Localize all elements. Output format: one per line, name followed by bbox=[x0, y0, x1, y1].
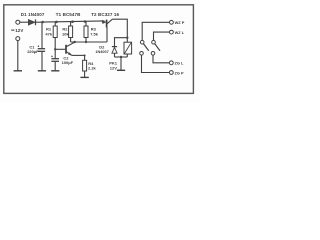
svg-text:WZ P: WZ P bbox=[175, 20, 185, 25]
relay coil PK1 bbox=[124, 42, 132, 57]
border frame bbox=[4, 5, 194, 94]
svg-text:ZG L: ZG L bbox=[175, 61, 184, 66]
svg-text:T2 BC327 16: T2 BC327 16 bbox=[91, 12, 119, 17]
wire terminal to D1 bbox=[20, 21, 29, 23]
contact K1 arm bbox=[143, 44, 148, 51]
ground G2 bbox=[38, 70, 46, 72]
node R2/rail bbox=[71, 20, 74, 23]
svg-text:D1 1N4007: D1 1N4007 bbox=[21, 12, 45, 17]
svg-text:2.2k: 2.2k bbox=[88, 66, 97, 71]
resistor R4 bbox=[83, 55, 87, 77]
label +12V bbox=[11, 29, 14, 31]
contact K2 arm bbox=[155, 44, 160, 51]
diode D2 bbox=[112, 47, 117, 57]
capacitor C2 bbox=[51, 56, 59, 71]
wire T2 base down bbox=[106, 27, 108, 42]
wire lower terminal to ground bbox=[17, 41, 19, 71]
svg-text:WZ L: WZ L bbox=[175, 30, 185, 35]
node relay ground bbox=[120, 56, 122, 58]
wire D2/relay bottom bbox=[115, 56, 128, 58]
svg-text:7.5k: 7.5k bbox=[90, 31, 99, 36]
wire +12V rail bbox=[43, 21, 105, 22]
svg-text:220µF: 220µF bbox=[27, 49, 39, 54]
terminal WZ P bbox=[170, 20, 174, 24]
wire K1 pole to ZG P bbox=[142, 55, 170, 72]
wire T1 base bbox=[55, 48, 65, 50]
resistor R2 bbox=[69, 22, 73, 42]
svg-text:100µF: 100µF bbox=[62, 60, 74, 65]
wire K2 throw to WZ L bbox=[154, 32, 170, 40]
capacitor C1 bbox=[38, 22, 46, 71]
wire to D2 bbox=[115, 38, 128, 47]
resistor R3 bbox=[84, 21, 88, 42]
terminal ZG P bbox=[169, 71, 173, 75]
terminal WZ L bbox=[170, 30, 174, 34]
transistor T2 bbox=[102, 19, 112, 27]
svg-text:T1 BC547B: T1 BC547B bbox=[56, 12, 81, 17]
contact K1 pole bbox=[140, 52, 144, 56]
terminal ZG L bbox=[169, 61, 173, 65]
wire K1 throw to WZ P bbox=[142, 22, 169, 40]
ground G5 bbox=[117, 69, 125, 71]
contact K2 pole bbox=[151, 52, 155, 56]
wire base line T1 collector to T2 base bbox=[71, 41, 107, 43]
terminal +12V upper bbox=[16, 20, 20, 24]
ground G4 bbox=[80, 76, 88, 78]
node C1/rail bbox=[41, 21, 44, 24]
node R1/rail bbox=[55, 21, 58, 24]
wire T2 collector to relay bbox=[112, 19, 127, 42]
svg-text:12V: 12V bbox=[110, 65, 117, 70]
svg-text:10k: 10k bbox=[62, 31, 69, 36]
node T1 base / C2 bbox=[54, 48, 56, 50]
terminal 12V lower bbox=[16, 37, 20, 41]
diode D1 bbox=[28, 19, 35, 25]
ground G1 bbox=[14, 70, 22, 72]
resistor R1 bbox=[53, 22, 57, 59]
wire T1 emitter to R4 bbox=[72, 54, 85, 56]
wire D1 to rail bbox=[36, 21, 43, 23]
contact K2 throw bbox=[152, 40, 156, 44]
svg-text:12V: 12V bbox=[15, 28, 23, 33]
svg-text:1N4007: 1N4007 bbox=[95, 50, 108, 54]
svg-text:D2: D2 bbox=[99, 45, 105, 50]
contact K1 throw bbox=[140, 40, 144, 44]
node T1 collector / R2 bbox=[74, 41, 76, 43]
node R3/rail bbox=[84, 20, 87, 23]
node R3 / base line bbox=[85, 41, 87, 43]
svg-text:ZG P: ZG P bbox=[175, 70, 184, 75]
svg-text:47k: 47k bbox=[45, 31, 52, 36]
wire relay to ground bbox=[120, 57, 122, 70]
wire K2 pole to ZG L bbox=[153, 55, 169, 63]
ground G3 bbox=[51, 70, 59, 72]
transistor T1 bbox=[66, 42, 75, 55]
node collector / D2 bbox=[126, 37, 128, 39]
